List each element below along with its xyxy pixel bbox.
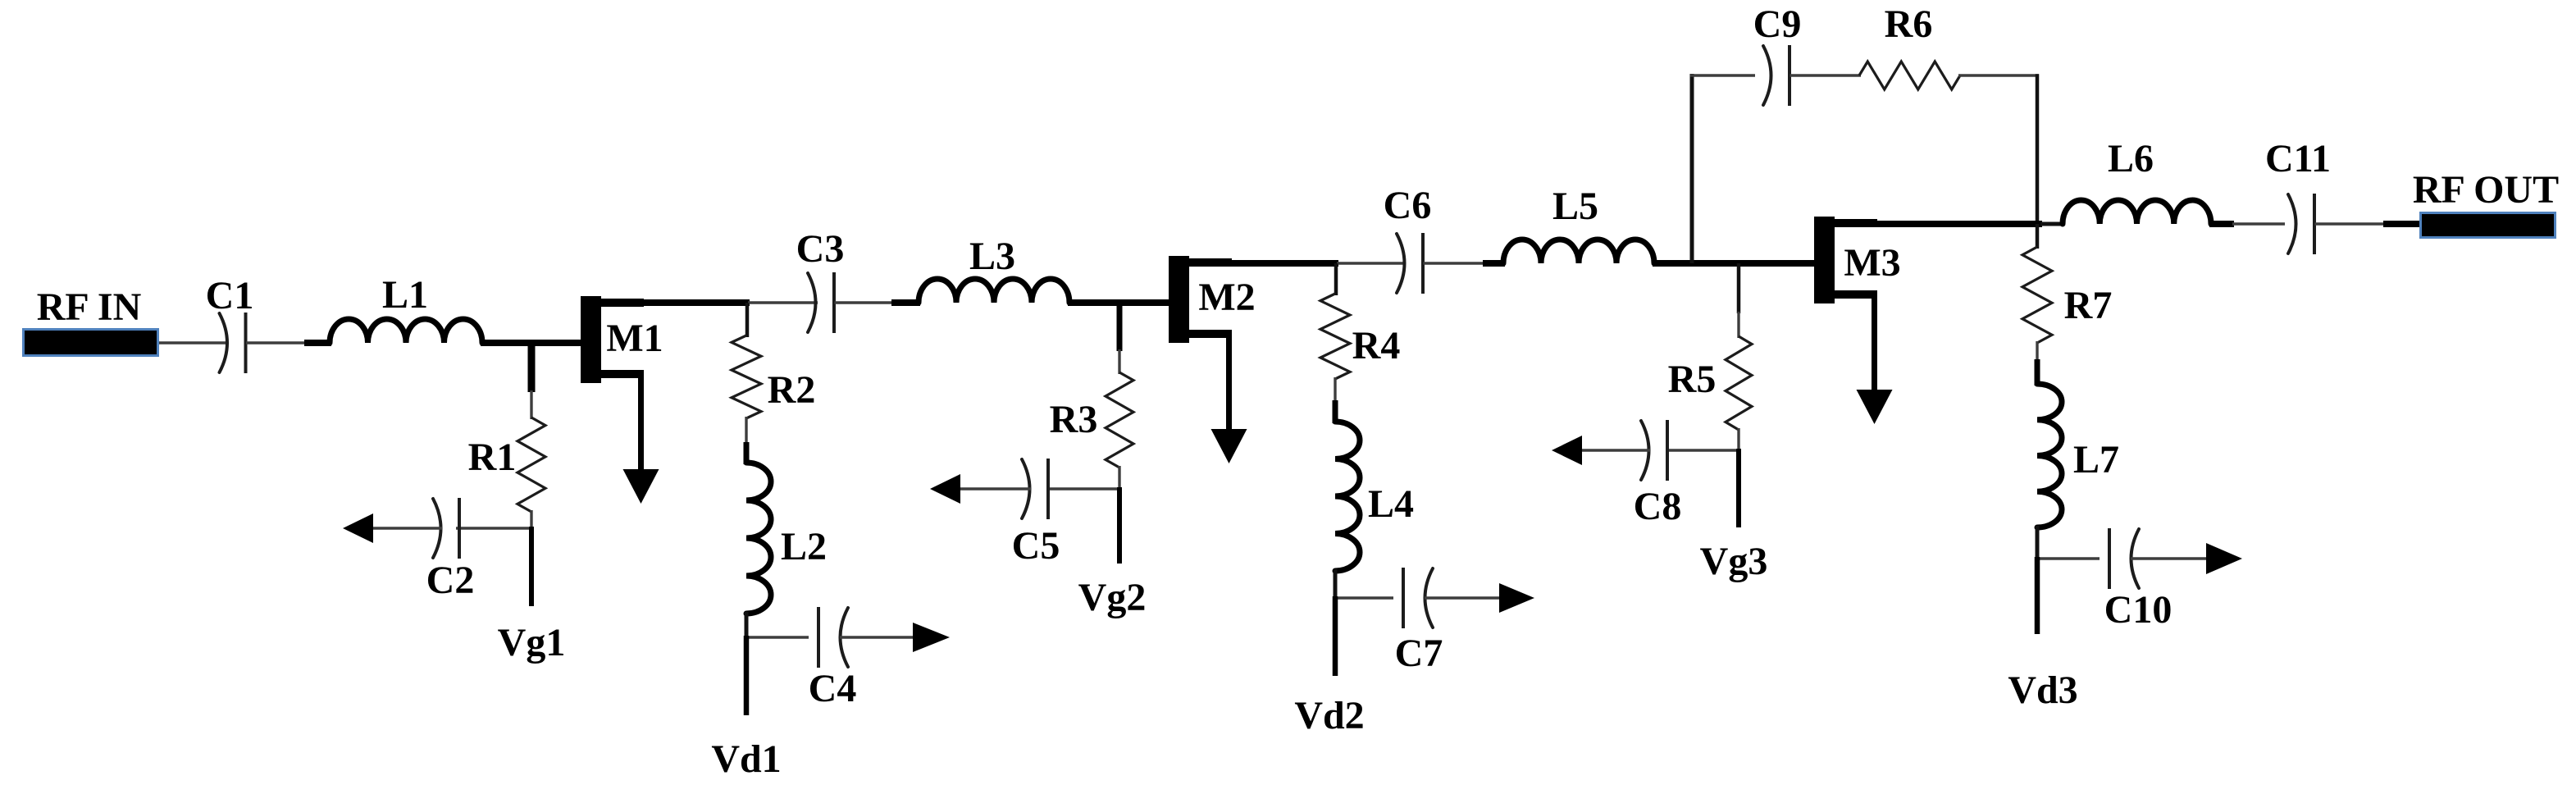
svg-text:R5: R5 — [1668, 358, 1717, 401]
svg-text:C11: C11 — [2265, 137, 2331, 180]
svg-text:Vd1: Vd1 — [711, 737, 781, 781]
svg-text:RF IN: RF IN — [37, 285, 142, 329]
svg-text:C7: C7 — [1395, 632, 1443, 675]
svg-text:C9: C9 — [1753, 2, 1802, 46]
svg-text:M2: M2 — [1198, 276, 1255, 319]
svg-text:C3: C3 — [796, 227, 845, 271]
svg-text:L4: L4 — [1368, 482, 1414, 526]
svg-text:R2: R2 — [768, 368, 816, 412]
svg-text:R1: R1 — [468, 436, 517, 479]
svg-text:L5: L5 — [1552, 185, 1598, 228]
svg-text:C1: C1 — [206, 274, 254, 317]
svg-text:M1: M1 — [606, 317, 663, 360]
svg-text:C5: C5 — [1012, 524, 1060, 568]
svg-text:R7: R7 — [2064, 284, 2113, 327]
svg-text:L6: L6 — [2108, 137, 2154, 180]
svg-text:C4: C4 — [809, 667, 857, 710]
svg-text:R4: R4 — [1352, 324, 1401, 367]
svg-text:Vg2: Vg2 — [1078, 576, 1147, 619]
svg-text:R3: R3 — [1050, 398, 1098, 441]
svg-text:R6: R6 — [1885, 2, 1933, 46]
svg-text:L7: L7 — [2073, 438, 2119, 481]
svg-text:C10: C10 — [2104, 588, 2173, 632]
svg-text:C2: C2 — [426, 559, 475, 602]
svg-text:RF OUT: RF OUT — [2413, 168, 2559, 212]
svg-text:M3: M3 — [1844, 241, 1900, 285]
svg-text:L1: L1 — [382, 273, 428, 317]
svg-text:C6: C6 — [1384, 184, 1432, 227]
svg-text:Vg1: Vg1 — [498, 621, 566, 664]
svg-text:L3: L3 — [969, 235, 1015, 278]
svg-text:L2: L2 — [781, 525, 827, 568]
svg-text:Vd3: Vd3 — [2008, 669, 2077, 712]
svg-text:Vg3: Vg3 — [1700, 540, 1768, 583]
svg-text:C8: C8 — [1634, 485, 1682, 528]
svg-text:Vd2: Vd2 — [1294, 694, 1364, 737]
